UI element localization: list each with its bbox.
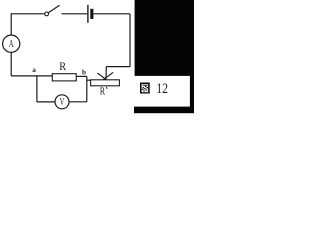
svg-text:R: R [100, 85, 106, 97]
wire ammeter to bottom corner [10, 52, 12, 76]
voltmeter V circle [55, 95, 69, 109]
wire battery to right corner [93, 13, 130, 15]
svg-text:b: b [82, 69, 86, 77]
voltmeter branch left vertical [36, 76, 38, 102]
slider arrow stem [105, 67, 107, 80]
svg-text:V: V [60, 97, 65, 108]
battery short thick plate [90, 9, 93, 19]
wire node b down to voltmeter line [86, 76, 88, 102]
wire R to node b [76, 75, 87, 77]
wire switch to battery [62, 13, 88, 15]
voltmeter branch bottom left wire [37, 101, 55, 103]
black side panel top [135, 0, 194, 76]
wire top horizontal to switch [11, 13, 44, 15]
voltmeter branch right wire [69, 101, 87, 103]
wire b branch to rheostat [87, 79, 91, 81]
resistor R body [52, 74, 76, 81]
wire right vertical [129, 14, 131, 67]
black side panel right column [190, 75, 194, 108]
battery long plate [87, 5, 89, 23]
svg-text:A: A [9, 39, 14, 50]
switch S pivot circle [45, 12, 49, 16]
svg-text:12: 12 [156, 81, 168, 97]
wire top-left vertical [10, 14, 12, 35]
label 图 (figure) glyph [140, 83, 150, 94]
slider arrowhead [97, 72, 113, 80]
switch blade [49, 5, 60, 12]
wire step to slider [106, 66, 130, 68]
ammeter A circle [3, 35, 20, 52]
rheostat R' body [91, 80, 120, 86]
svg-text:R: R [59, 59, 66, 73]
svg-text:a: a [32, 66, 36, 74]
wire bottom horizontal to R [11, 75, 52, 77]
black side panel bottom [134, 107, 194, 114]
